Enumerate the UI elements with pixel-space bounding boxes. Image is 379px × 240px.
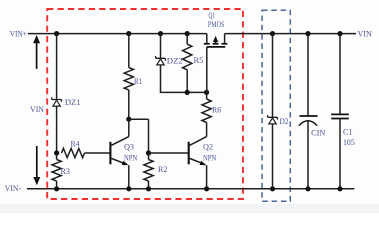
node: R1 top on rail bbox=[126, 31, 131, 36]
wire: node to Q2 base bbox=[149, 152, 189, 154]
Q1 channel segments bbox=[204, 43, 210, 45]
node: DZ2 top on rail bbox=[158, 31, 163, 36]
svg-text:DZ1: DZ1 bbox=[65, 98, 81, 107]
transistor Q2 NPN bbox=[188, 142, 190, 165]
svg-text:C1: C1 bbox=[343, 127, 353, 136]
svg-text:NPN: NPN bbox=[203, 154, 216, 163]
resistor R3 bbox=[56, 153, 58, 160]
wire: top rail Q1 drain to VIN bbox=[225, 33, 356, 35]
node: CIN top on rail bbox=[305, 31, 310, 36]
svg-text:VIN-: VIN- bbox=[5, 184, 22, 193]
node: R2 top / Q2 base junction bbox=[146, 150, 151, 155]
red dashed protection-circuit box bbox=[47, 9, 243, 199]
node: DZ1 top on rail bbox=[54, 31, 59, 36]
capacitor CIN bbox=[307, 34, 309, 116]
blue dashed box around D2 bbox=[262, 10, 290, 201]
node: D2 top on rail bbox=[270, 31, 275, 36]
current arrow down (return) bbox=[36, 146, 38, 178]
svg-text:R2: R2 bbox=[158, 165, 168, 174]
svg-text:CIN: CIN bbox=[311, 129, 325, 138]
node: R5 top on rail bbox=[185, 31, 190, 36]
svg-text:R4: R4 bbox=[71, 139, 80, 148]
svg-text:Q2: Q2 bbox=[203, 142, 213, 151]
wire: Q1 gate lead bbox=[206, 47, 208, 93]
Q1 gate plate bbox=[207, 46, 225, 48]
svg-text:105: 105 bbox=[343, 138, 355, 147]
node: C1 top on rail bbox=[337, 31, 342, 36]
svg-text:R5: R5 bbox=[194, 56, 204, 65]
node A: R1 / Q3 collector junction bbox=[126, 117, 131, 122]
wire: node A to R2/Q2-base column bbox=[129, 118, 149, 120]
svg-text:R3: R3 bbox=[61, 167, 71, 176]
svg-text:R6: R6 bbox=[212, 106, 221, 115]
svg-text:PMOS: PMOS bbox=[208, 20, 224, 29]
page bottom tint bbox=[0, 204, 379, 213]
zener diode DZ1 bbox=[52, 97, 62, 102]
resistor R4 bbox=[62, 148, 85, 157]
diode D2 bbox=[272, 34, 274, 117]
svg-text:DZ2: DZ2 bbox=[167, 57, 183, 66]
wire: top rail VIN+ to Q1 source bbox=[28, 33, 207, 35]
wire: bottom rail VIN- bbox=[27, 188, 354, 190]
svg-text:R1: R1 bbox=[134, 77, 142, 86]
svg-text:Q3: Q3 bbox=[124, 142, 134, 151]
svg-text:VIN: VIN bbox=[30, 105, 44, 114]
svg-text:D2: D2 bbox=[280, 117, 289, 126]
wire: R4 to Q3 base bbox=[85, 152, 111, 154]
resistor R6 bbox=[206, 92, 208, 99]
node: gate / R6 junction bbox=[204, 90, 209, 95]
svg-text:NPN: NPN bbox=[124, 154, 137, 163]
resistor R1 bbox=[128, 34, 130, 68]
svg-text:VIN: VIN bbox=[358, 29, 373, 38]
wire: DZ2 bottom to gate node bbox=[161, 65, 207, 93]
transistor Q3 NPN bbox=[109, 142, 111, 165]
svg-text:Q1: Q1 bbox=[209, 11, 216, 20]
current arrow up (input) bbox=[36, 42, 38, 69]
bottom rail junction dots bbox=[54, 186, 59, 191]
capacitor C1 bbox=[339, 34, 341, 114]
zener diode DZ2 bbox=[160, 34, 162, 58]
resistor R2 bbox=[148, 153, 150, 160]
Q1 bulk arrow bbox=[215, 40, 217, 44]
wire: DZ1 to R4/R3 node bbox=[56, 106, 58, 153]
wire: DZ1 branch upper lead bbox=[56, 34, 58, 99]
svg-text:VIN+: VIN+ bbox=[10, 30, 27, 39]
resistor R5 bbox=[186, 34, 188, 45]
transistor Q1 PMOS bbox=[206, 34, 208, 44]
node: R5 bottom junction bbox=[185, 90, 190, 95]
node: DZ1/R4/R3 junction bbox=[54, 150, 59, 155]
